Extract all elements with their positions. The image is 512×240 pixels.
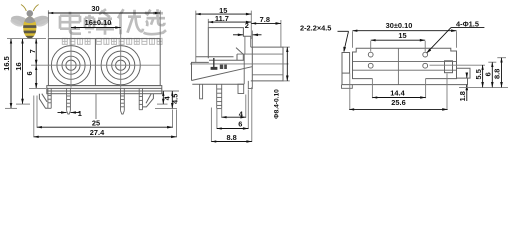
side dim 11.7 [208, 14, 251, 27]
top dim 15 [371, 31, 426, 51]
side right step [238, 84, 244, 93]
side flange left [192, 62, 209, 80]
dim 16 left [14, 39, 23, 105]
dim 6 left [25, 65, 36, 88]
left ear [39, 94, 48, 109]
side dim 7.8 [251, 15, 281, 47]
side barrel [251, 47, 283, 81]
side ear diagonal [192, 67, 253, 81]
right ground pin [139, 88, 142, 109]
left ground pin [48, 88, 51, 108]
right jack circles [101, 46, 140, 85]
side inner vertical [243, 54, 245, 84]
front lower center line [95, 94, 97, 119]
top dim 6 [484, 62, 497, 87]
dim phi 8.4 [274, 47, 290, 119]
top dim 25.6 [349, 74, 447, 111]
top right pin [457, 68, 471, 78]
svg-text:2-2.2×4.5: 2-2.2×4.5 [300, 23, 331, 32]
svg-text:7: 7 [28, 49, 37, 53]
top inner lines [353, 61, 457, 70]
horizontal centerline [31, 64, 160, 66]
top body outline [353, 48, 457, 78]
left jack pin [67, 88, 71, 114]
side dim 8.8 [211, 87, 251, 142]
side barrel centerline [190, 63, 289, 65]
svg-text:27.4: 27.4 [90, 128, 105, 137]
watermark subtitle row [62, 38, 162, 44]
svg-text:16±0.10: 16±0.10 [85, 18, 112, 27]
left extension ticks [5, 39, 46, 109]
side foot [200, 84, 203, 99]
svg-text:4-Φ1.5: 4-Φ1.5 [456, 19, 479, 28]
dim 1 pin [58, 109, 82, 118]
dim 30 top [48, 4, 160, 38]
side dim 6 [217, 90, 248, 130]
front body outline [48, 39, 160, 86]
side dim 4 [222, 95, 246, 119]
svg-text:11.7: 11.7 [215, 14, 229, 23]
svg-text:2: 2 [245, 21, 249, 30]
side dim 15 [196, 6, 252, 63]
side body roof [208, 28, 251, 59]
top holes [368, 52, 427, 68]
svg-text:8.8: 8.8 [226, 133, 236, 142]
svg-text:14.4: 14.4 [390, 88, 405, 97]
side chamfer [236, 48, 243, 61]
side dim 2 [233, 21, 262, 47]
svg-text:25.6: 25.6 [391, 98, 405, 107]
dim 16.5 left [2, 39, 11, 109]
vertical centerline left jack [70, 30, 72, 88]
svg-text:6: 6 [238, 119, 242, 128]
top right slot [445, 61, 453, 73]
side barrel bore lines [237, 54, 283, 75]
watermark logo bee [9, 5, 50, 39]
dim 25 [37, 96, 173, 128]
left jack circles [51, 46, 90, 85]
svg-text:Φ8.4-0.10: Φ8.4-0.10 [274, 89, 281, 119]
side under-barrel step [248, 81, 252, 89]
top skirt [342, 73, 468, 85]
front bottom strip [47, 86, 162, 94]
side pin [217, 84, 222, 108]
side solder tabs [211, 58, 227, 70]
right jack pin [121, 88, 125, 114]
svg-text:30±0.10: 30±0.10 [386, 21, 413, 30]
front center divider [94, 39, 96, 86]
top dim 30±0.10 [353, 21, 457, 48]
svg-text:1: 1 [78, 109, 82, 118]
dim 4 right [157, 91, 179, 104]
top dim 5.5 [430, 65, 486, 87]
side bottom line [192, 83, 243, 85]
svg-text:15: 15 [398, 31, 406, 40]
right ear [143, 94, 154, 107]
dim 4.5 right [155, 91, 180, 108]
watermark text dian [60, 12, 81, 34]
svg-text:16.5: 16.5 [2, 56, 11, 70]
svg-text:8.8: 8.8 [493, 69, 502, 79]
dim 7 left [28, 39, 37, 66]
top left slot [342, 53, 350, 74]
svg-text:1.8: 1.8 [458, 91, 467, 101]
label 2-2.2x4.5 with leader [300, 23, 349, 52]
top left lower tab [342, 85, 353, 89]
svg-text:6: 6 [25, 71, 34, 75]
svg-text:30: 30 [91, 4, 99, 13]
dim 16±0.10 [71, 18, 121, 27]
top dims bottom line [459, 86, 508, 88]
top dim 8.8 [493, 58, 506, 88]
svg-text:4.5: 4.5 [171, 94, 180, 104]
svg-text:25: 25 [92, 118, 100, 127]
svg-text:7.8: 7.8 [260, 15, 270, 24]
watermark text xuan [144, 9, 167, 34]
watermark text you [118, 9, 143, 34]
top center vertical [397, 48, 399, 84]
svg-text:16: 16 [14, 62, 23, 70]
side tab inner line [244, 36, 246, 54]
label 4-phi1.5 with leader [426, 19, 484, 53]
vertical centerline right jack [120, 30, 122, 88]
side shelf lines [196, 57, 244, 61]
top dim 14.4 [372, 78, 425, 98]
svg-text:6: 6 [484, 72, 493, 76]
top dim 1.8 [458, 73, 467, 101]
svg-text:5.5: 5.5 [474, 69, 483, 79]
watermark text feng [85, 9, 114, 35]
dim 27.4 [34, 96, 177, 138]
